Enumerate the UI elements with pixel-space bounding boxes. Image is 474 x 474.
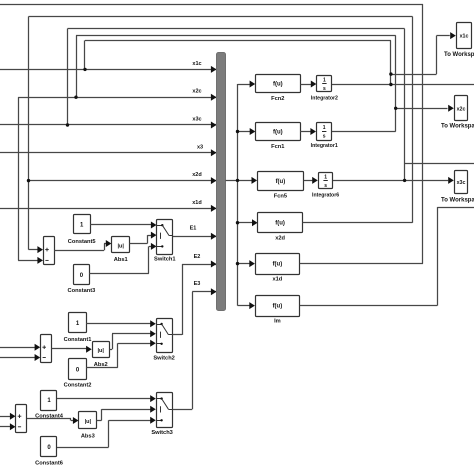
svg-text:Abs3: Abs3: [81, 433, 95, 439]
svg-text:f(u): f(u): [276, 179, 286, 185]
svg-text:s: s: [323, 86, 326, 92]
wire bus branch row6: [238, 305, 250, 307]
wire Sum3 output to Abs3: [27, 418, 71, 420]
wire loop4 x2c feedback top: [76, 35, 396, 37]
wire loop1 x1d feedback top: [0, 4, 423, 6]
wire loop2 right vertical: [412, 17, 414, 223]
svg-text:Fcn1: Fcn1: [271, 144, 284, 150]
svg-text:x2d: x2d: [275, 236, 285, 242]
block To Workspace3 x3c: [455, 171, 468, 194]
block Sum1: [44, 237, 55, 265]
block Constant1: [69, 313, 87, 333]
block Constant5: [74, 215, 91, 234]
wire mux input E2: [182, 264, 217, 266]
block Abs3: [79, 412, 97, 429]
junction dot Integrator2 output: [389, 83, 392, 86]
block Switch1: [157, 220, 173, 255]
wire mux input x1d: [0, 208, 217, 210]
wire Im output: [300, 305, 438, 307]
svg-text:Switch1: Switch1: [154, 257, 176, 263]
wire Constant3 to Switch1: [89, 273, 149, 275]
svg-text:|u|: |u|: [117, 243, 124, 249]
svg-text:x3c: x3c: [192, 117, 201, 123]
wire Constant4 to Switch3: [57, 398, 151, 400]
wire bus branch row5: [238, 263, 250, 265]
block Switch2: [157, 319, 173, 353]
block Abs1: [112, 237, 130, 253]
wire mux input x3: [0, 152, 217, 154]
svg-text:f(u): f(u): [273, 82, 283, 88]
junction dot x3c: [66, 123, 69, 126]
wire bus branch row1: [238, 84, 250, 86]
wire Switch2 output to E2 riser: [172, 334, 182, 336]
block Integrator2: [317, 76, 332, 92]
svg-text:x3c: x3c: [457, 180, 466, 186]
wire Sum2 output to Abs2: [52, 348, 87, 350]
wire mux input x3c: [0, 124, 217, 126]
svg-text:To Workspac: To Workspac: [441, 124, 474, 130]
svg-text:|u|: |u|: [97, 348, 104, 354]
svg-text:x2c: x2c: [457, 106, 466, 112]
wire loop3 x3c feedback top: [68, 28, 405, 30]
svg-text:1: 1: [323, 77, 326, 83]
block Constant4: [41, 391, 57, 411]
wire mux input x2c: [18, 97, 216, 99]
svg-text:Constant1: Constant1: [64, 337, 92, 343]
svg-text:x1d: x1d: [192, 200, 201, 206]
svg-text:E1: E1: [190, 226, 197, 232]
wire Integrator6 output to To Workspace3: [333, 180, 448, 182]
wire Abs2 to Switch2 control: [110, 349, 113, 351]
wire Abs3 to Switch3 control: [97, 420, 102, 422]
block Switch3: [157, 393, 173, 428]
wire x2d down to Sum1 plus: [29, 249, 38, 251]
svg-text:x1d: x1d: [272, 277, 282, 283]
svg-text:Constant6: Constant6: [35, 460, 63, 466]
block Integrator1: [317, 123, 332, 141]
svg-text:E3: E3: [194, 281, 201, 287]
wire bus branch row2: [238, 131, 251, 133]
svg-text:Im: Im: [274, 319, 281, 325]
svg-text:E2: E2: [194, 254, 201, 260]
wire mux input x1c: [0, 69, 217, 71]
block Constant2: [69, 359, 87, 380]
wire Fcn2 to Integrator2: [300, 84, 311, 86]
wire loop5 left vertical: [84, 40, 86, 69]
wire Constant6 to Switch3: [57, 447, 109, 449]
wire x2c down to Sum1 minus: [18, 97, 20, 260]
wire Constant5 to Switch1: [90, 224, 151, 226]
svg-text:x2c: x2c: [192, 89, 201, 95]
svg-text:Integrator2: Integrator2: [311, 95, 338, 101]
wire E3 riser from Switch3: [192, 292, 194, 409]
wire branch to To Workspace2: [396, 108, 448, 110]
wire left input to Sum3 plus: [0, 416, 10, 418]
block Fcn x1d: [256, 254, 300, 275]
junction dot on loop4 vertical: [394, 107, 397, 110]
wire Integrator1 output: [332, 131, 396, 133]
svg-text:x1c: x1c: [460, 34, 469, 40]
wire loop1 right vertical: [422, 4, 424, 264]
wire left input to Sum2 plus: [0, 347, 35, 349]
wire Fcn5 to Integrator6: [304, 180, 313, 182]
mux Mux1 bar: [217, 53, 226, 311]
wire Abs1 to Switch1 control: [130, 243, 148, 245]
block To Workspace1 x1c: [457, 23, 472, 49]
wire Constant2 to Switch2: [86, 367, 118, 369]
junction dot x2d: [27, 179, 30, 182]
junction dot on loop5 vertical: [389, 72, 392, 75]
block Abs2: [93, 342, 110, 358]
wire loop2 left vertical: [28, 17, 30, 250]
wire loop4 left vertical: [76, 35, 78, 97]
block Fcn1: [256, 123, 301, 141]
svg-text:Integrator1: Integrator1: [311, 143, 338, 149]
svg-text:Switch2: Switch2: [153, 356, 175, 362]
block Constant6: [41, 437, 57, 457]
wire Constant1 to Switch2: [86, 323, 151, 325]
svg-text:Constant5: Constant5: [68, 239, 96, 245]
svg-text:1: 1: [323, 125, 326, 131]
wire loop3 left vertical: [67, 29, 69, 125]
block Fcn Im: [256, 296, 300, 317]
wire mux input E1: [173, 236, 217, 238]
block Sum2: [41, 335, 52, 363]
wire bus branch row3: [238, 180, 252, 182]
svg-text:1: 1: [324, 175, 327, 181]
svg-text:x3: x3: [197, 144, 203, 150]
svg-text:Constant2: Constant2: [64, 383, 92, 389]
wire Integrator2 output to right edge: [332, 84, 474, 86]
wire mux input x2d: [29, 180, 217, 182]
wire left input to Sum2 minus: [0, 357, 35, 359]
svg-text:Fcn2: Fcn2: [271, 96, 284, 102]
svg-text:Constant4: Constant4: [35, 413, 64, 419]
block To Workspace2 x2c: [455, 96, 468, 121]
block Fcn5: [258, 172, 304, 191]
svg-text:To Workspac: To Workspac: [444, 52, 474, 58]
svg-text:f(u): f(u): [273, 129, 283, 135]
wire branch to To Workspace1: [391, 74, 437, 76]
wire x1d output to loop1: [300, 263, 423, 265]
wire loop2 x2d feedback top: [29, 16, 413, 18]
svg-text:Constant3: Constant3: [67, 288, 95, 294]
junction dot Integrator6 output: [403, 179, 406, 182]
svg-text:s: s: [324, 183, 327, 189]
wire loop5 right vertical: [390, 40, 392, 84]
svg-text:Integrator6: Integrator6: [312, 192, 339, 198]
wire loop3 right vertical: [404, 29, 406, 181]
block Integrator6: [319, 173, 333, 189]
wire Sum1 output to Abs1: [54, 250, 104, 252]
wire mux output: [226, 180, 238, 182]
block Fcn x2d: [258, 213, 303, 233]
svg-text:s: s: [323, 134, 326, 140]
svg-text:|u|: |u|: [85, 419, 92, 425]
wire distribution bus vertical: [237, 84, 239, 306]
svg-text:x1c: x1c: [192, 61, 201, 67]
wire E2 riser from Switch2: [182, 264, 184, 335]
block Constant3: [74, 265, 90, 285]
wire loop5 x1c feedback top: [85, 40, 391, 42]
svg-text:f(u): f(u): [273, 304, 283, 310]
block Sum3: [16, 405, 27, 433]
wire Switch3 output to E3 riser: [172, 409, 192, 411]
svg-text:To Workspac: To Workspac: [441, 198, 474, 204]
junction dot x2c: [74, 96, 77, 99]
svg-text:Switch3: Switch3: [151, 430, 173, 436]
wire loop4 right vertical: [395, 35, 397, 131]
wire x2d output to loop2: [303, 222, 413, 224]
wire Fcn1 to Integrator1: [300, 131, 311, 133]
svg-text:Abs1: Abs1: [114, 257, 128, 263]
wire mux input E3: [192, 291, 216, 293]
svg-text:f(u): f(u): [275, 221, 285, 227]
wire left input to Sum3 minus: [0, 426, 10, 428]
svg-text:f(u): f(u): [273, 262, 283, 268]
svg-text:Fcn5: Fcn5: [274, 194, 287, 200]
junction dot x1c: [83, 68, 86, 71]
svg-text:x2d: x2d: [192, 172, 201, 178]
wire bus branch row4: [238, 222, 253, 224]
block Fcn2: [256, 75, 301, 93]
wire loop3 branch to right edge: [405, 163, 474, 165]
